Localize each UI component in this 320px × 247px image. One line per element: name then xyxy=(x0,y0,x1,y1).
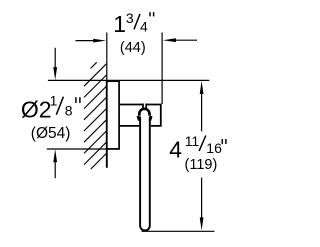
fraction slashes and inch marks drawn as lines xyxy=(56,12,226,151)
dim 54: bottom arrow (points up) xyxy=(54,161,56,179)
svg-text:11: 11 xyxy=(185,133,200,149)
svg-text:1: 1 xyxy=(50,93,58,109)
svg-text:(Ø54): (Ø54) xyxy=(31,125,71,142)
svg-text:8: 8 xyxy=(65,103,73,119)
svg-text:Ø2: Ø2 xyxy=(21,96,52,122)
slash of 11/16 xyxy=(199,136,206,152)
dim 119: line upper segment + up arrow xyxy=(201,92,203,131)
wall hatching xyxy=(84,62,106,169)
extension line E2: bottom of plate (54 dim) xyxy=(47,148,120,150)
text: 1 3/4" xyxy=(21,10,222,173)
inch marks after 3/4 xyxy=(149,12,151,16)
inch marks after 1/8 xyxy=(75,97,77,103)
svg-text:16: 16 xyxy=(206,140,222,156)
svg-text:4: 4 xyxy=(140,18,148,34)
pivot pin xyxy=(142,104,144,110)
svg-text:3: 3 xyxy=(126,10,134,26)
svg-text:(44): (44) xyxy=(120,40,146,56)
slash of 3/4 xyxy=(134,14,140,30)
wall plate (escutcheon) side view xyxy=(107,81,119,149)
fillet ears xyxy=(138,116,139,121)
dim 119: line lower segment + down arrow xyxy=(201,178,203,220)
inch marks after 11/16 xyxy=(221,139,223,144)
dim 44: right arrow (points left) xyxy=(174,39,197,41)
holder bar (hanging U) xyxy=(140,117,150,231)
pivot knuckle (bold arch) xyxy=(139,109,149,116)
wall surface line xyxy=(106,80,108,168)
svg-text:1: 1 xyxy=(113,11,126,37)
dim 44: left arrow (points right at wall) xyxy=(76,40,96,42)
extension line: wall surface upward (left ext of 44 dim) xyxy=(106,33,108,81)
extension line E4: right ext of 44 dim xyxy=(161,33,163,105)
svg-text:(119): (119) xyxy=(185,157,218,173)
svg-text:4: 4 xyxy=(169,136,182,162)
extension line E3: bottom of bar (119 dim) xyxy=(142,230,215,232)
dim 54: top arrow (points down) xyxy=(54,48,56,69)
extension line E1: top of plate / 54+119 dims xyxy=(48,79,209,81)
slash of 1/8 xyxy=(56,97,63,115)
arm (horizontal support) xyxy=(119,105,161,126)
